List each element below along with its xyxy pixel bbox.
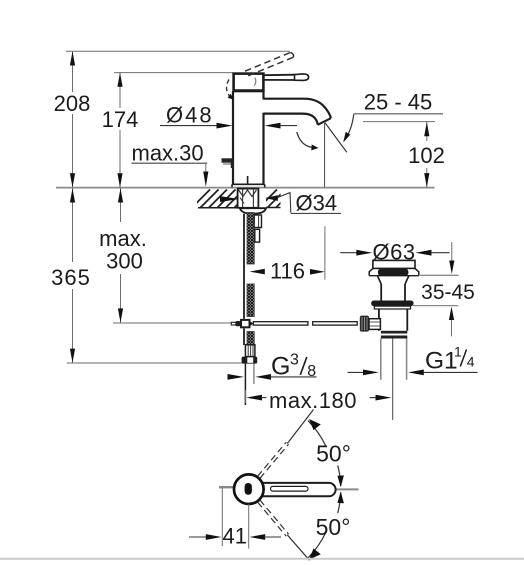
extension line top of lever (208 reference) xyxy=(66,50,290,52)
dimension 174 xyxy=(102,73,139,188)
base flange xyxy=(232,184,265,187)
flexible supply hose (braided) xyxy=(247,213,254,345)
dimension G 1 1/4 xyxy=(348,344,478,376)
dimension 365 xyxy=(51,188,91,362)
svg-text:116: 116 xyxy=(270,259,305,284)
label 50 deg lower xyxy=(316,514,351,540)
pivot mark inside head xyxy=(254,78,256,86)
dimension max.30 with leader xyxy=(132,141,209,187)
rotation arc lower xyxy=(308,491,344,559)
horizontal actuating rod xyxy=(253,322,357,325)
svg-text:41: 41 xyxy=(223,524,247,549)
top view: cartridge stem pill xyxy=(245,483,252,495)
waste lower body xyxy=(379,309,407,331)
svg-text:102: 102 xyxy=(408,143,445,168)
rotation arc upper xyxy=(308,419,344,487)
dimension diameter 48 xyxy=(160,103,297,129)
dimension max.300 xyxy=(99,188,147,322)
mounting nut xyxy=(240,208,266,214)
svg-text:50°: 50° xyxy=(316,514,351,540)
G 3/8 connection nut xyxy=(242,357,258,364)
svg-text:G: G xyxy=(271,353,290,381)
svg-text:Ø34: Ø34 xyxy=(296,190,338,215)
waste compression rings xyxy=(381,331,407,339)
page separator line xyxy=(0,558,524,560)
threaded mounting shank xyxy=(238,189,259,208)
lever handle (horizontal) xyxy=(264,74,309,81)
top view: centerline stubs xyxy=(219,487,359,489)
waste centerline xyxy=(392,339,394,421)
dimension G 3/8 xyxy=(228,352,317,381)
deck section hatching left xyxy=(192,190,253,208)
cartridge head xyxy=(233,74,265,91)
svg-text:3: 3 xyxy=(290,352,299,369)
waste rod knob xyxy=(360,316,369,332)
extension line top of body (174 reference) xyxy=(114,72,233,74)
waste neck taper xyxy=(378,276,409,284)
pop-up waste rim flare xyxy=(369,268,419,275)
svg-text:25 - 45: 25 - 45 xyxy=(364,90,433,115)
waste upper body xyxy=(381,284,405,301)
waste rod stem xyxy=(369,319,380,330)
svg-text:50°: 50° xyxy=(316,441,351,467)
pull rod knob above deck xyxy=(247,176,249,184)
pull rod cross junction xyxy=(231,320,253,327)
top view: lever swing lower dashed outline xyxy=(258,500,310,560)
dimension 41 xyxy=(189,488,281,549)
dimension 102 xyxy=(408,122,445,187)
svg-text:Ø48: Ø48 xyxy=(166,103,214,128)
top view: lever handle xyxy=(262,483,336,496)
waste tail pipe G 1 1/4 xyxy=(381,339,407,380)
dimension diameter 63 xyxy=(340,240,449,265)
pull rod below deck xyxy=(243,214,245,345)
faucet body outline xyxy=(233,91,264,185)
extension line locking ring (35-45 reference) xyxy=(412,305,458,307)
svg-text:Ø63: Ø63 xyxy=(373,240,416,265)
waste plug disc xyxy=(378,269,409,276)
lever handle raised (dashed) xyxy=(245,52,294,75)
extension line waste rim (35-45 reference) xyxy=(420,274,459,276)
label 50 deg upper xyxy=(316,441,351,467)
pop-up waste upper cup xyxy=(373,260,415,268)
deck underside line xyxy=(198,207,281,209)
G 3/8 tail pipe xyxy=(245,364,254,405)
dimension diameter 34 with leader xyxy=(220,190,341,215)
svg-text:300: 300 xyxy=(106,249,143,274)
svg-text:1: 1 xyxy=(454,344,462,360)
side stop tab on body xyxy=(222,158,235,168)
deck section hatching right xyxy=(259,190,294,208)
dimension 25 - 45 xyxy=(343,90,443,143)
spray direction arc arrow xyxy=(297,132,319,150)
extension line bottom of supply hose (365 reference) xyxy=(67,362,242,364)
svg-text:G1: G1 xyxy=(425,348,458,375)
dimension 35-45 xyxy=(421,242,475,336)
spout xyxy=(264,99,331,125)
hose crimp sleeve xyxy=(245,345,255,357)
svg-text:4: 4 xyxy=(467,353,475,369)
aerator axis line xyxy=(324,123,326,187)
extension line pull-rod level (max.300 reference) xyxy=(113,322,232,324)
dimension 116 xyxy=(250,226,326,283)
svg-text:max.30: max.30 xyxy=(132,141,204,166)
svg-text:8: 8 xyxy=(307,363,316,380)
second hose nipple xyxy=(254,215,261,242)
svg-text:174: 174 xyxy=(102,107,139,132)
svg-text:35-45: 35-45 xyxy=(421,281,475,304)
dimension 208 xyxy=(54,51,91,187)
waste locking ring xyxy=(371,301,413,310)
extension line aerator level (102 reference) xyxy=(363,121,435,123)
top view: lever swing upper dashed outline xyxy=(258,410,314,479)
deck / mounting surface line xyxy=(56,187,435,189)
dimension max.180 xyxy=(245,388,391,413)
top view: faucet body circle xyxy=(234,474,264,504)
svg-text:365: 365 xyxy=(51,265,91,290)
svg-text:208: 208 xyxy=(54,91,91,116)
adjustable spray line xyxy=(325,123,347,153)
lever travel arc (dashed, left of head) xyxy=(227,80,234,100)
svg-text:max.: max. xyxy=(99,226,147,251)
